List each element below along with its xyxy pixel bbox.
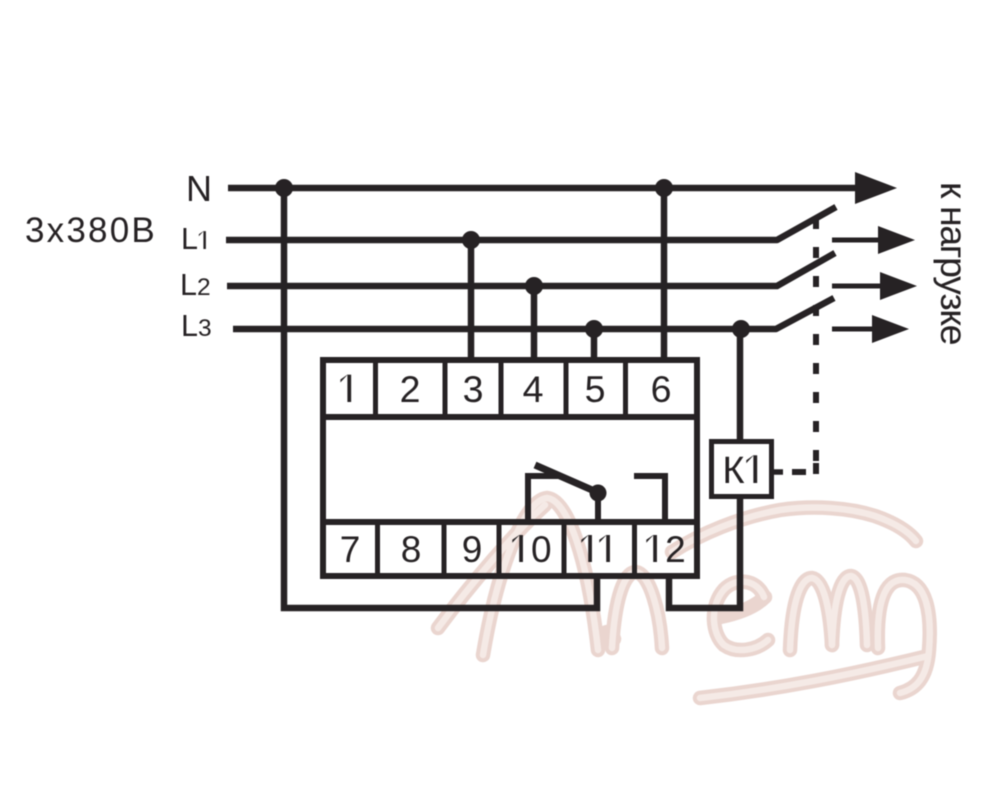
node L3-K1 junction — [732, 320, 750, 338]
terminal numbers 7-12 (digit 1 strokes drawn separately) — [340, 529, 686, 570]
svg-text:5: 5 — [585, 368, 606, 410]
svg-text:L2: L2 — [180, 268, 211, 302]
svg-text:4: 4 — [523, 368, 544, 410]
terminal dividers bottom row — [378, 522, 635, 576]
watermark script "Алтем" — [438, 498, 930, 698]
K1 tick to linkage — [773, 469, 783, 475]
svg-text:7: 7 — [340, 529, 361, 570]
terminal number 10 digit 1 — [512, 535, 523, 562]
terminal number 12 digit 1 — [646, 535, 657, 562]
node L3 junction — [585, 320, 603, 338]
arrow L1 to load — [832, 226, 915, 254]
svg-text:к нагрузке: к нагрузке — [933, 182, 975, 345]
wire L1 drop to terminal 3 — [468, 240, 475, 360]
svg-text:N: N — [186, 168, 212, 209]
terminal number 1 — [340, 375, 351, 402]
wire L3 drop to terminal 5 — [591, 329, 598, 360]
terminal dividers top row — [376, 360, 626, 417]
arrow N to load — [855, 172, 897, 204]
label L1 digit 1 — [199, 231, 206, 249]
svg-text:L: L — [181, 222, 198, 256]
wire L3 horizontal with switch blade — [233, 298, 834, 329]
terminal numbers 2-6 — [400, 368, 672, 410]
svg-text:3x380В: 3x380В — [25, 211, 157, 250]
svg-text:9: 9 — [462, 529, 483, 570]
wire L3 drop to K1 coil — [737, 329, 744, 442]
svg-text:3: 3 — [463, 368, 484, 410]
node N-right junction — [655, 179, 673, 197]
relay contact fixed terminal from pin 12 — [634, 476, 665, 522]
dash bottom stub — [813, 463, 819, 474]
label K1 digit 1 — [746, 455, 757, 483]
relay device outline — [323, 360, 697, 576]
relay contact fixed terminal from pin 10 — [528, 476, 562, 522]
arrow L2 to load — [832, 272, 917, 300]
node L1 junction — [462, 231, 480, 249]
svg-text:6: 6 — [651, 368, 672, 410]
node L2 junction — [525, 277, 543, 295]
relay coil K1 box — [712, 442, 772, 497]
relay contact pivot to pin 11 — [595, 493, 601, 522]
relay contact pivot node — [590, 485, 607, 502]
terminal row separator top — [323, 414, 697, 420]
wire L2 horizontal with switch blade — [227, 253, 835, 286]
svg-text:2: 2 — [400, 368, 421, 410]
wire N left drop and under-route to terminal 11 — [284, 188, 597, 608]
svg-text:2: 2 — [665, 529, 686, 570]
svg-text:8: 8 — [401, 529, 422, 570]
arrow L3 to load — [832, 315, 909, 343]
svg-text:К: К — [722, 450, 744, 492]
watermark highlight strokes — [438, 498, 930, 698]
terminal number 11 digit 1a — [581, 535, 592, 562]
dash link to K1 — [792, 469, 806, 475]
wire N drop to terminal 6 — [661, 188, 668, 360]
wire L2 drop to terminal 4 — [531, 286, 538, 360]
wire K1 to terminal 12 under-route — [669, 498, 740, 608]
relay contact blade — [535, 465, 599, 493]
svg-text:0: 0 — [531, 529, 552, 570]
svg-text:L3: L3 — [181, 309, 212, 343]
mechanical linkage dashed line — [813, 218, 819, 462]
wire L1 horizontal with switch blade — [226, 207, 836, 240]
terminal row separator bottom — [323, 519, 697, 525]
wire N horizontal — [228, 185, 860, 192]
node N-left junction — [275, 179, 293, 197]
terminal number 11 digit 1b — [599, 535, 610, 562]
